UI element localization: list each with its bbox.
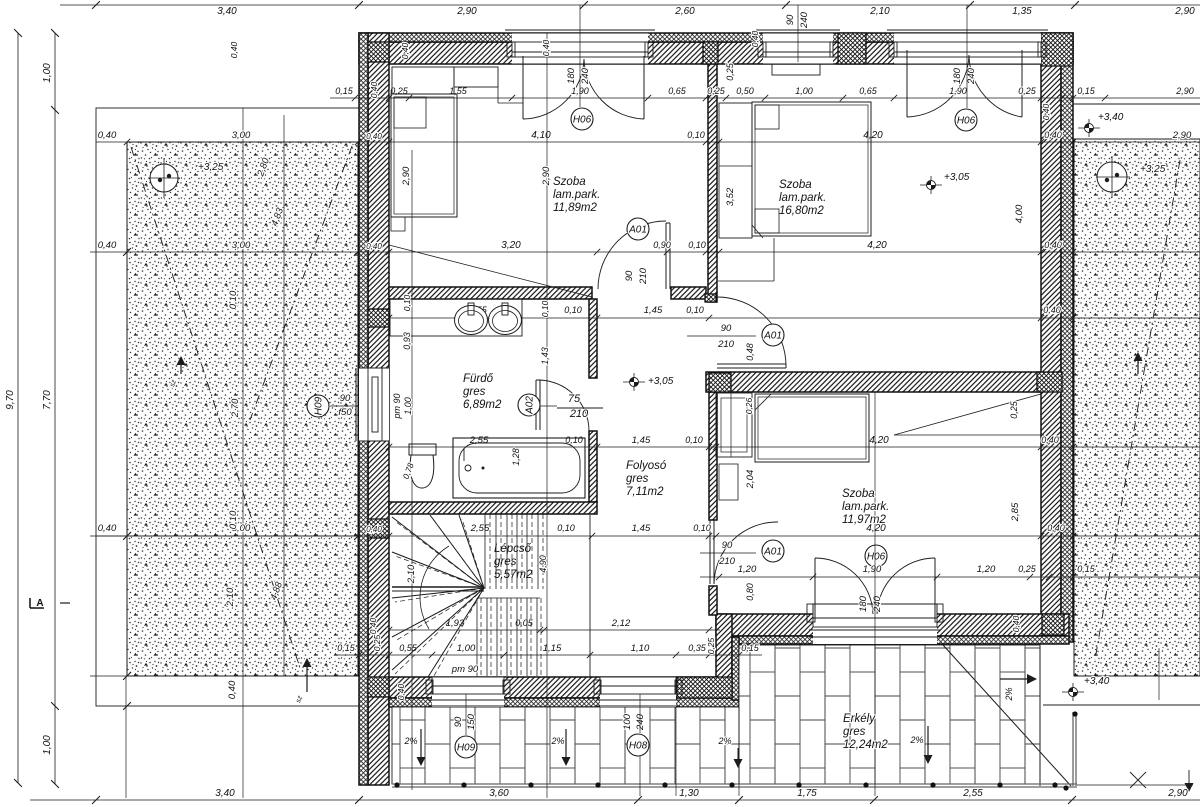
svg-text:2,10: 2,10	[869, 6, 890, 17]
svg-text:1,10: 1,10	[631, 643, 650, 654]
svg-text:Szoba: Szoba	[553, 176, 586, 188]
svg-text:H09: H09	[314, 396, 325, 415]
svg-text:0,25: 0,25	[725, 62, 735, 81]
chimney left	[150, 164, 178, 192]
svg-text:0,65: 0,65	[668, 86, 687, 96]
svg-text:150: 150	[466, 713, 477, 730]
svg-text:240: 240	[580, 67, 591, 85]
top dimension line	[60, 4, 1200, 6]
left exterior wall structural	[368, 33, 389, 785]
room1 bed	[391, 94, 457, 217]
bathroom right wall lower	[589, 431, 597, 502]
door A02 bathroom	[535, 380, 537, 430]
svg-text:0,40: 0,40	[400, 42, 410, 59]
stairs upper flight treads	[484, 514, 486, 589]
radiator under middle window	[772, 64, 820, 75]
svg-text:1,00: 1,00	[42, 735, 53, 755]
svg-text:gres: gres	[626, 473, 649, 485]
svg-text:90: 90	[453, 716, 464, 727]
svg-text:H06: H06	[957, 116, 976, 127]
wall room1-hall piece	[671, 287, 706, 299]
svg-text:2%: 2%	[550, 736, 564, 746]
svg-text:0,40: 0,40	[366, 132, 382, 141]
svg-text:0,40: 0,40	[1043, 305, 1061, 315]
stair walk line arc	[420, 546, 449, 629]
interior wall hall-bedroom3 lower	[709, 586, 717, 615]
svg-text:1,45: 1,45	[632, 435, 651, 446]
svg-text:2,55: 2,55	[962, 788, 983, 799]
svg-text:A: A	[36, 598, 43, 609]
svg-text:3,00: 3,00	[232, 240, 251, 251]
svg-text:3,52: 3,52	[725, 187, 736, 206]
svg-text:H06: H06	[867, 552, 886, 563]
dim row y447	[389, 446, 1200, 448]
window H06 room2 swing arcs	[906, 50, 908, 117]
chimney right	[1097, 162, 1127, 192]
level symbol	[1062, 691, 1084, 693]
svg-text:1,45: 1,45	[644, 305, 663, 316]
stairs landing edge	[392, 586, 484, 588]
extension line x875	[874, 392, 876, 796]
svg-text:2,12: 2,12	[611, 618, 631, 629]
svg-text:16,80m2: 16,80m2	[779, 205, 824, 217]
window H06 room1 swing arcs	[522, 56, 524, 119]
svg-text:0,10: 0,10	[693, 523, 711, 533]
svg-text:0,15: 0,15	[1077, 86, 1096, 96]
window H06 room1	[512, 33, 648, 64]
column top wall at room divider	[703, 42, 718, 64]
svg-text:lam.park.: lam.park.	[553, 189, 600, 201]
toilet	[409, 444, 436, 455]
column bedroom wall left end	[709, 373, 731, 392]
svg-text:180: 180	[858, 595, 869, 612]
svg-text:0,10: 0,10	[228, 290, 239, 309]
svg-text:gres: gres	[843, 726, 866, 738]
svg-text:pm 90: pm 90	[451, 664, 479, 675]
svg-text:0,15: 0,15	[337, 643, 356, 653]
wall room1-bathroom	[389, 287, 592, 299]
svg-text:H06: H06	[573, 115, 592, 126]
svg-text:3,00: 3,00	[232, 130, 251, 141]
svg-text:2,04: 2,04	[745, 470, 756, 490]
svg-text:1,90: 1,90	[863, 564, 882, 575]
svg-text:+3,40: +3,40	[1084, 676, 1110, 687]
level symbol	[623, 381, 645, 383]
svg-text:H08: H08	[629, 741, 648, 752]
svg-text:2,90: 2,90	[541, 166, 552, 186]
svg-text:4,20: 4,20	[863, 130, 883, 141]
svg-text:2%: 2%	[717, 736, 731, 746]
extension line window1 center	[579, 5, 581, 107]
window H06 room2	[894, 33, 1041, 64]
stair fan	[392, 517, 484, 588]
washbasin counter	[390, 299, 522, 336]
svg-text:0,40: 0,40	[396, 683, 406, 700]
svg-text:1,00: 1,00	[42, 63, 53, 83]
svg-text:0,25: 0,25	[372, 634, 382, 651]
svg-text:210: 210	[717, 339, 735, 350]
svg-text:lam.park.: lam.park.	[842, 501, 889, 513]
washbasin left	[455, 306, 488, 335]
dim row y318	[389, 317, 1200, 319]
svg-text:pm 90: pm 90	[392, 393, 402, 419]
window H09 bottom	[432, 677, 504, 707]
svg-text:1,20: 1,20	[738, 564, 757, 575]
svg-text:0,15: 0,15	[741, 643, 760, 653]
svg-text:0,10: 0,10	[685, 435, 703, 445]
door A01 hall-bedroom3	[709, 520, 711, 584]
roof ridge vertical line A	[242, 108, 244, 798]
svg-text:11,97m2: 11,97m2	[842, 514, 887, 526]
svg-text:2,10: 2,10	[225, 587, 236, 607]
svg-text:1,00: 1,00	[795, 86, 813, 96]
step wall between hall and balcony	[716, 614, 732, 698]
balcony railing bottom	[392, 783, 1077, 785]
svg-text:90: 90	[624, 270, 635, 281]
svg-text:1,28: 1,28	[511, 448, 521, 466]
svg-text:+3,25: +3,25	[198, 162, 224, 173]
svg-text:0,55: 0,55	[399, 643, 418, 653]
svg-text:3,40: 3,40	[215, 788, 235, 799]
svg-text:2,90: 2,90	[401, 166, 412, 186]
window H09 left wall	[359, 368, 389, 441]
svg-text:12,24m2: 12,24m2	[843, 739, 888, 751]
column top-left corner	[368, 42, 389, 62]
step wall insulation	[732, 637, 739, 700]
svg-text:6,89m2: 6,89m2	[463, 399, 502, 411]
svg-text:90: 90	[785, 14, 796, 25]
window H08 bottom	[600, 677, 676, 707]
svg-text:4,00: 4,00	[1014, 204, 1025, 223]
window H06 bedroom3 swing arcs	[814, 558, 816, 618]
extension line window3 center	[966, 5, 968, 108]
svg-text:+3,40: +3,40	[1098, 112, 1124, 123]
svg-text:0,10: 0,10	[686, 305, 704, 315]
column top wall mid	[838, 33, 866, 64]
svg-text:3,20: 3,20	[501, 240, 521, 251]
column right wall bottom	[1042, 614, 1064, 635]
svg-text:240: 240	[872, 595, 883, 613]
svg-text:1,75: 1,75	[797, 788, 817, 799]
svg-text:0,50: 0,50	[736, 86, 754, 96]
svg-text:180: 180	[952, 67, 963, 84]
svg-text:+3,05: +3,05	[648, 376, 674, 387]
svg-text:1,20: 1,20	[977, 564, 996, 575]
level symbol	[1078, 127, 1100, 129]
bathroom right wall upper	[589, 299, 597, 378]
extension line x547	[546, 33, 548, 798]
right roof outline bottom line	[1043, 704, 1200, 706]
wall bedroom2-bedroom3	[706, 372, 1041, 392]
stairs area	[589, 515, 591, 677]
interior wall room1-room2	[708, 64, 717, 302]
roof slope arrow right	[1137, 360, 1139, 374]
room2 bed	[752, 102, 871, 236]
svg-text:0,25: 0,25	[1018, 86, 1037, 96]
svg-text:180: 180	[566, 67, 577, 84]
section marker A	[30, 607, 44, 609]
svg-text:Szoba: Szoba	[842, 488, 875, 500]
svg-text:0,80: 0,80	[745, 583, 755, 601]
svg-text:4,20: 4,20	[867, 240, 887, 251]
svg-text:0,40: 0,40	[366, 525, 382, 534]
extension line x412	[411, 150, 413, 790]
svg-text:A01: A01	[763, 547, 782, 558]
svg-text:0,25: 0,25	[1009, 400, 1019, 419]
extension line x1159	[1158, 648, 1160, 700]
terrace line right of balcony	[1077, 784, 1193, 786]
right exterior wall insulation	[1061, 33, 1073, 642]
svg-text:0,40: 0,40	[1044, 130, 1062, 140]
svg-text:0,65: 0,65	[859, 86, 878, 96]
svg-text:210: 210	[638, 267, 649, 285]
svg-text:2,10: 2,10	[406, 564, 417, 584]
column bottom-left	[368, 677, 389, 697]
svg-text:0,10: 0,10	[557, 523, 575, 533]
svg-text:4,90: 4,90	[538, 555, 548, 573]
extension line x126	[125, 676, 127, 798]
svg-text:100: 100	[622, 713, 633, 730]
left roof outline	[96, 108, 359, 706]
right roof stippled area	[1074, 139, 1200, 676]
balcony floor left part	[392, 707, 739, 784]
svg-text:0,40: 0,40	[1011, 615, 1021, 632]
svg-text:0,35: 0,35	[688, 643, 707, 653]
svg-text:7,11m2: 7,11m2	[626, 486, 664, 498]
bottom wall hallway sill	[389, 698, 739, 707]
bottom dimension line	[30, 799, 1200, 801]
roof bottom dim line	[90, 675, 127, 677]
extension line x739	[738, 707, 740, 796]
svg-text:2,85: 2,85	[1010, 502, 1021, 522]
svg-text:gres: gres	[463, 386, 486, 398]
svg-text:2%: 2%	[403, 736, 417, 746]
svg-text:4,10: 4,10	[531, 130, 551, 141]
dim row y252	[359, 251, 1200, 253]
roof slope arrow left2	[306, 666, 308, 692]
dim row y536	[96, 535, 1200, 537]
svg-text:240: 240	[799, 11, 810, 29]
roof slope arrow left	[180, 364, 182, 374]
roof dimension line y252 (left)	[90, 251, 359, 253]
level symbol	[920, 184, 942, 186]
svg-text:A01: A01	[628, 225, 647, 236]
svg-text:1,90: 1,90	[949, 86, 967, 96]
bedroom3 bed	[755, 394, 869, 462]
svg-text:0,40: 0,40	[368, 617, 378, 634]
svg-text:2,90: 2,90	[1167, 788, 1188, 799]
dim row y577	[700, 576, 1200, 578]
svg-text:2%: 2%	[1004, 687, 1014, 701]
svg-text:75: 75	[568, 393, 581, 405]
svg-text:0,40: 0,40	[541, 39, 551, 56]
svg-text:210: 210	[718, 556, 736, 567]
svg-text:0,40: 0,40	[366, 242, 382, 251]
bathroom bottom wall	[389, 502, 597, 514]
svg-text:0,40: 0,40	[369, 81, 379, 98]
interior wall hall-bedroom3 upper	[709, 392, 717, 520]
bottom wall bedroom3 sill	[732, 636, 1069, 644]
svg-text:1,00: 1,00	[403, 397, 413, 415]
right exterior wall structural	[1041, 33, 1061, 642]
top second dim row y98	[330, 97, 1200, 99]
svg-text:0,93: 0,93	[402, 332, 412, 350]
svg-text:0,40: 0,40	[98, 523, 117, 534]
svg-text:1,43: 1,43	[540, 347, 550, 365]
balcony railing right	[1072, 712, 1074, 786]
column left wall mid	[368, 519, 389, 538]
svg-text:2,90: 2,90	[1175, 86, 1194, 96]
svg-text:0,25: 0,25	[1018, 564, 1037, 574]
svg-text:0,40: 0,40	[229, 41, 239, 58]
column left wall at bathroom	[368, 309, 389, 327]
svg-text:2%: 2%	[909, 735, 923, 745]
balcony floor right part	[739, 645, 1040, 784]
svg-text:2,55: 2,55	[470, 523, 490, 534]
svg-text:0,40: 0,40	[1041, 103, 1051, 120]
wedge room1	[389, 245, 592, 297]
roof vertical line B	[283, 115, 285, 676]
svg-text:9,70: 9,70	[5, 390, 16, 410]
svg-text:240: 240	[966, 67, 977, 85]
svg-text:3,40: 3,40	[217, 6, 237, 17]
extension line x676	[675, 707, 677, 796]
svg-text:0,40: 0,40	[750, 30, 760, 47]
svg-text:0,40: 0,40	[1047, 523, 1065, 533]
svg-text:0,25: 0,25	[707, 86, 726, 96]
svg-text:11,89m2: 11,89m2	[553, 202, 598, 214]
extension line window2 center	[797, 5, 799, 62]
svg-text:A01: A01	[763, 331, 782, 342]
svg-text:0,10: 0,10	[228, 510, 239, 529]
bedroom3 nightstand	[719, 464, 738, 500]
right roof outline top line	[1041, 103, 1200, 105]
svg-text:0,26: 0,26	[744, 397, 754, 414]
svg-text:gres: gres	[494, 556, 517, 568]
railing posts	[394, 782, 399, 787]
column right wall at bedroom wall	[1037, 372, 1062, 392]
top exterior wall insulation	[359, 33, 1073, 42]
roof hip dash line 2	[250, 146, 352, 420]
svg-text:0,25: 0,25	[706, 637, 716, 654]
svg-text:f50: f50	[338, 407, 352, 418]
dim row y142	[96, 141, 1200, 143]
svg-text:210: 210	[569, 408, 589, 420]
column step wall bottom	[677, 677, 732, 698]
svg-text:1,35: 1,35	[1012, 6, 1032, 17]
svg-text:2,55: 2,55	[469, 435, 489, 446]
left roof stippled area	[127, 142, 358, 676]
drain cross	[1130, 772, 1146, 788]
room1 closet	[392, 67, 454, 94]
svg-text:0,40: 0,40	[1044, 240, 1062, 250]
svg-text:0,40: 0,40	[227, 680, 238, 699]
svg-text:2,90: 2,90	[1172, 130, 1192, 141]
svg-text:0,10: 0,10	[688, 240, 706, 250]
svg-text:Szoba: Szoba	[779, 179, 812, 191]
room1 table	[391, 217, 405, 231]
svg-text:Erkély: Erkély	[843, 713, 876, 725]
column hall top	[705, 294, 716, 302]
svg-text:0,40: 0,40	[98, 240, 117, 251]
svg-text:+3,25: +3,25	[1140, 164, 1166, 175]
svg-text:Folyosó: Folyosó	[626, 460, 667, 472]
svg-text:0,48: 0,48	[745, 343, 755, 361]
svg-text:lam.park.: lam.park.	[779, 192, 826, 204]
svg-text:1,15: 1,15	[543, 643, 562, 654]
svg-text:0,15: 0,15	[1077, 564, 1096, 574]
svg-text:90: 90	[340, 393, 351, 404]
wedge bedroom3	[894, 434, 1044, 436]
window H06 bedroom3 (bottom)	[813, 604, 937, 644]
bathtub	[453, 438, 585, 498]
bottom wall hallway	[389, 677, 739, 698]
svg-text:+3,05: +3,05	[944, 172, 970, 183]
left exterior wall insulation	[359, 33, 368, 785]
svg-text:2,70: 2,70	[230, 398, 241, 418]
bottom wall bedroom3	[716, 614, 1069, 636]
washbasin right	[489, 306, 522, 335]
balcony right edge line	[1039, 645, 1041, 786]
svg-text:H09: H09	[457, 743, 476, 754]
top exterior wall structural	[359, 42, 1073, 64]
svg-text:0,40: 0,40	[1041, 435, 1059, 445]
svg-text:1,45: 1,45	[632, 523, 651, 534]
dim row y630	[389, 629, 720, 631]
bedroom3 wardrobe	[716, 393, 752, 457]
svg-text:2,90: 2,90	[1174, 6, 1195, 17]
svg-text:0,15: 0,15	[335, 86, 354, 96]
right roof dash line	[1095, 160, 1180, 660]
stairs lower flight treads	[476, 598, 478, 676]
column top-right corner	[1041, 33, 1073, 66]
svg-text:0,10: 0,10	[402, 294, 412, 311]
svg-text:240: 240	[635, 713, 646, 731]
svg-text:1,30: 1,30	[679, 788, 699, 799]
door A01 room1-hall	[665, 223, 667, 289]
roof hip dash line 1	[131, 147, 300, 668]
svg-text:2,60: 2,60	[674, 6, 695, 17]
svg-text:3,60: 3,60	[489, 788, 509, 799]
svg-text:1,00: 1,00	[457, 643, 476, 654]
left dim line 1,00/7,70/1,00	[54, 33, 56, 784]
svg-text:Fürdő: Fürdő	[463, 373, 494, 385]
roof dimension line y536 (left)	[90, 535, 359, 537]
svg-text:90: 90	[721, 323, 732, 334]
svg-text:0,10: 0,10	[687, 130, 705, 140]
svg-text:90: 90	[722, 540, 733, 551]
svg-text:Lépcső: Lépcső	[494, 543, 532, 555]
svg-text:0,40: 0,40	[98, 130, 117, 141]
room2 wardrobe	[719, 103, 752, 238]
window 90/240 top middle	[763, 33, 833, 64]
left dim line 9,70	[17, 33, 19, 783]
svg-text:2,90: 2,90	[456, 6, 477, 17]
svg-text:0,10: 0,10	[540, 300, 550, 317]
svg-text:7,70: 7,70	[42, 390, 53, 410]
svg-text:A02: A02	[525, 396, 536, 415]
svg-text:0,90: 0,90	[653, 240, 671, 250]
balcony diagonal	[943, 645, 1071, 786]
svg-text:4,20: 4,20	[869, 435, 889, 446]
dim row y655	[336, 654, 762, 656]
svg-text:0,10: 0,10	[564, 305, 582, 315]
door A01 hall-bedroom2	[717, 363, 786, 365]
